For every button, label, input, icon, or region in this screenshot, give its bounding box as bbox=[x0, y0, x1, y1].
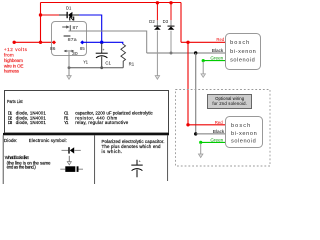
junction red split to 2nd solenoid bbox=[186, 41, 189, 44]
svg-text:solenoid: solenoid bbox=[231, 139, 256, 145]
relay pin 86 terminal bbox=[52, 40, 56, 44]
label +12 volts source bbox=[4, 47, 28, 74]
wire D1 cathode lead bbox=[72, 14, 79, 16]
wire C1 top lead bbox=[101, 43, 103, 53]
wire red drop to 2nd solenoid bbox=[187, 42, 189, 125]
wire solenoid feed bus (black wire) bbox=[147, 52, 225, 54]
solenoid 1 box bbox=[226, 34, 261, 70]
wire +12V rail right drop bbox=[180, 3, 182, 43]
wire D1 branch (red segment) bbox=[41, 14, 60, 16]
svg-text:highbeam: highbeam bbox=[4, 58, 23, 63]
relay pin 85 terminal bbox=[80, 40, 84, 44]
arrow D2 continues to highbeam bbox=[155, 76, 160, 80]
svg-text:87a: 87a bbox=[68, 37, 78, 42]
svg-text:Parts List: Parts List bbox=[7, 99, 23, 104]
ground arrow pin 30 bbox=[67, 76, 72, 80]
label solenoid 1 text bbox=[230, 40, 256, 63]
wire +12V left vertical drop bbox=[40, 3, 42, 43]
wire D1 anode lead bbox=[59, 14, 67, 16]
svg-text:Green: Green bbox=[210, 138, 224, 143]
svg-text:solenoid: solenoid bbox=[230, 58, 255, 64]
wire coil bus 85 to R1 (blue) bbox=[82, 42, 123, 44]
label capacitor legend text bbox=[102, 139, 165, 154]
optional wiring dashed box bbox=[176, 90, 271, 167]
diode D1 bbox=[67, 12, 73, 18]
relay pin 87 contact bbox=[62, 25, 70, 31]
svg-text:bosch: bosch bbox=[230, 40, 249, 46]
wire solenoid 1 green bbox=[203, 60, 225, 62]
wire to relay pin 86 bbox=[14, 41, 54, 43]
svg-text:Y1: Y1 bbox=[83, 60, 88, 65]
junction pin30 / ground rail bbox=[68, 66, 71, 69]
diode D2 bbox=[154, 26, 161, 30]
svg-text:Green: Green bbox=[210, 56, 224, 61]
relay pin 87a contact bbox=[64, 35, 71, 37]
svg-text:D3: D3 bbox=[8, 120, 13, 125]
svg-text:from: from bbox=[4, 53, 14, 58]
svg-text:for 2nd solenoid.: for 2nd solenoid. bbox=[212, 101, 247, 106]
svg-text:is which.: is which. bbox=[102, 149, 123, 154]
svg-text:diode, 1N4001: diode, 1N4001 bbox=[16, 120, 47, 125]
arrow symbol-to-package bbox=[67, 156, 71, 165]
node D2 rail tap bbox=[156, 1, 159, 4]
wire solenoid 2 green bbox=[201, 141, 225, 143]
node 2nd solenoid red bbox=[186, 123, 189, 126]
parts list box bbox=[5, 91, 169, 134]
relay Y1 body bbox=[52, 22, 87, 56]
svg-text:86: 86 bbox=[50, 46, 56, 51]
legend boxes borders bbox=[3, 135, 167, 184]
svg-text:87: 87 bbox=[73, 25, 79, 30]
node 2nd solenoid green bbox=[199, 141, 202, 144]
label solenoid 2 text bbox=[231, 123, 257, 145]
node D3 rail tap bbox=[169, 1, 172, 4]
svg-text:Red: Red bbox=[216, 37, 225, 42]
svg-text:What it looks like:: What it looks like: bbox=[5, 155, 30, 160]
svg-text:Black: Black bbox=[213, 129, 226, 134]
wire solenoid 2 black bbox=[196, 133, 225, 135]
svg-text:+12 volts: +12 volts bbox=[4, 47, 28, 52]
capacitor C1 bbox=[96, 48, 108, 68]
svg-text:harness: harness bbox=[4, 69, 20, 74]
wire black drop to 2nd solenoid bbox=[195, 53, 197, 134]
capacitor legend symbol bbox=[131, 160, 142, 178]
svg-text:bosch: bosch bbox=[231, 123, 250, 129]
diode legend symbol bbox=[62, 147, 81, 153]
wire D2 cathode drop bbox=[156, 31, 158, 76]
svg-text:end as the band.): end as the band.) bbox=[7, 164, 37, 169]
svg-text:Y1: Y1 bbox=[64, 120, 69, 125]
junction C1 / ground rail bbox=[100, 66, 103, 69]
junction black split to 2nd solenoid bbox=[194, 51, 197, 54]
ground arrow solenoid 1 bbox=[201, 74, 206, 78]
svg-text:Black: Black bbox=[212, 48, 225, 53]
label diode legend header bbox=[4, 138, 67, 143]
node solenoid 1 green tap bbox=[202, 59, 205, 62]
svg-text:D3: D3 bbox=[163, 19, 169, 24]
ground arrow solenoid 2 bbox=[198, 154, 203, 158]
svg-text:D2: D2 bbox=[149, 19, 155, 24]
node 2nd solenoid black bbox=[194, 132, 197, 135]
wire +12V top rail bbox=[41, 2, 182, 4]
wire D3 cathode drop bbox=[170, 31, 172, 53]
wire solenoid 2 red bbox=[188, 124, 225, 126]
thick divider line bbox=[3, 133, 169, 135]
diode D3 bbox=[168, 26, 175, 30]
svg-text:30: 30 bbox=[72, 51, 78, 56]
relay pin 30 armature bbox=[64, 50, 75, 52]
junction D3 / feed bus bbox=[170, 52, 173, 55]
svg-text:Red: Red bbox=[215, 120, 224, 125]
svg-text:Electronic symbol:: Electronic symbol: bbox=[29, 138, 67, 143]
svg-text:bi-xenon: bi-xenon bbox=[231, 131, 257, 137]
wire relay pin 30 lead bbox=[68, 52, 70, 76]
wire D3 anode stub bbox=[170, 3, 172, 26]
wire D2 anode stub bbox=[156, 3, 158, 26]
svg-text:85: 85 bbox=[80, 46, 86, 51]
svg-text:bi-xenon: bi-xenon bbox=[230, 49, 256, 55]
wire green 2 to ground stub bbox=[200, 143, 202, 154]
junction +12V feed / coil bbox=[39, 41, 42, 44]
wire solenoid 1 red bbox=[181, 41, 225, 43]
junction coil / C1 bbox=[100, 41, 103, 44]
svg-text:D1: D1 bbox=[66, 6, 72, 11]
wire pin 87 out to bus bbox=[69, 31, 147, 53]
node D1 branch junction bbox=[39, 13, 42, 16]
svg-text:R1: R1 bbox=[129, 62, 135, 67]
wire D1 to coil node (blue) bbox=[79, 15, 102, 42]
node +12V highbeam tap bbox=[13, 41, 16, 44]
solenoid 2 box bbox=[226, 117, 263, 148]
svg-text:Diode:: Diode: bbox=[4, 138, 17, 143]
svg-text:C1: C1 bbox=[105, 61, 111, 66]
label optional wiring note bbox=[212, 96, 247, 106]
optional wiring note box bbox=[208, 95, 252, 109]
resistor R1 bbox=[121, 44, 126, 67]
label parts list entries bbox=[8, 111, 154, 126]
svg-text:wire in OE: wire in OE bbox=[4, 63, 24, 68]
diode legend package bbox=[60, 166, 83, 172]
wire ground rail under relay bbox=[69, 67, 123, 69]
label what it looks like bbox=[5, 155, 51, 169]
wire green to ground stub bbox=[202, 62, 204, 74]
svg-text:relay, regular automotive: relay, regular automotive bbox=[75, 120, 129, 125]
